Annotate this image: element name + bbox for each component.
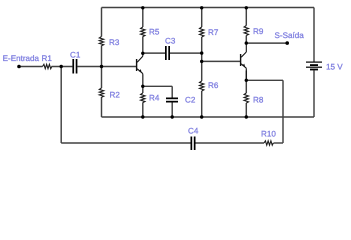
svg-text:R3: R3: [109, 38, 120, 47]
svg-text:R9: R9: [253, 27, 264, 36]
svg-text:R2: R2: [110, 91, 121, 100]
svg-text:C4: C4: [188, 127, 199, 136]
svg-text:R6: R6: [208, 81, 219, 90]
svg-text:R8: R8: [253, 96, 264, 105]
svg-text:C1: C1: [70, 51, 81, 60]
svg-text:R1: R1: [42, 54, 53, 63]
svg-text:C3: C3: [165, 37, 176, 46]
svg-text:R5: R5: [149, 28, 160, 37]
svg-text:15 V: 15 V: [326, 63, 343, 72]
svg-text:S-Saída: S-Saída: [275, 31, 305, 40]
svg-text:R7: R7: [208, 28, 219, 37]
svg-text:R4: R4: [149, 94, 160, 103]
svg-text:C2: C2: [185, 96, 196, 105]
svg-text:E-Entrada: E-Entrada: [3, 54, 40, 63]
svg-text:R10: R10: [261, 130, 276, 139]
